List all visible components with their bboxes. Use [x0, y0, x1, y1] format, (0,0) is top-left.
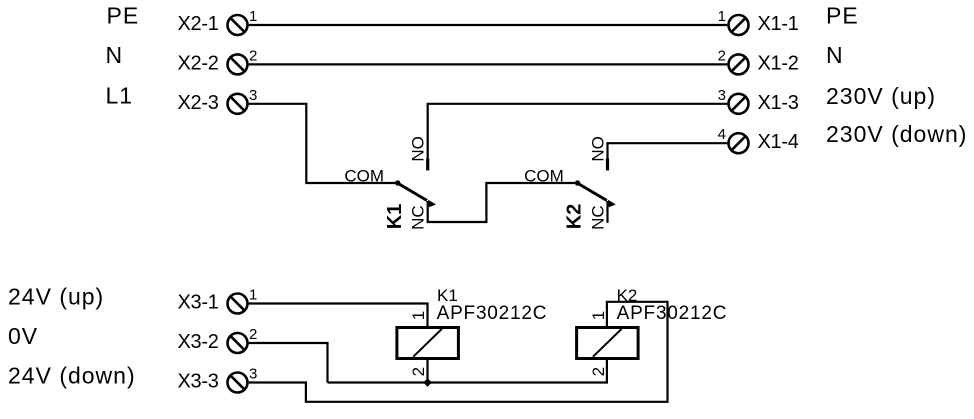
svg-text:X1-2: X1-2: [758, 52, 799, 74]
svg-text:X3-1: X3-1: [178, 292, 219, 314]
wire X2-1 to X1-1: [249, 24, 728, 26]
svg-text:COM: COM: [344, 167, 384, 186]
wire K1 NO to X1-3: [428, 104, 728, 160]
svg-text:1: 1: [409, 311, 428, 320]
svg-text:N: N: [826, 42, 844, 68]
svg-text:4: 4: [718, 126, 726, 143]
switch K1: [395, 159, 436, 208]
svg-text:2: 2: [249, 326, 257, 343]
wire X3-2 to junction line: [249, 343, 328, 383]
svg-text:24V (down): 24V (down): [8, 363, 136, 389]
svg-text:NO: NO: [589, 136, 608, 162]
wire K2 NC stub: [606, 201, 608, 223]
terminal X1-3: [729, 94, 749, 114]
svg-text:1: 1: [249, 287, 257, 304]
svg-text:2: 2: [249, 47, 257, 64]
wire X3-3 to K2 coil pin1: [249, 302, 668, 402]
terminal X3-1: [228, 294, 248, 314]
svg-text:1: 1: [589, 311, 608, 320]
svg-text:K2: K2: [564, 204, 586, 230]
wire junction line to K2 coil pin2: [328, 359, 607, 383]
svg-text:X1-4: X1-4: [758, 131, 799, 153]
relay coil K2: [577, 328, 639, 359]
svg-text:3: 3: [249, 366, 257, 383]
svg-text:APF30212C: APF30212C: [617, 303, 728, 324]
svg-text:2: 2: [718, 47, 726, 64]
svg-text:X1-3: X1-3: [758, 92, 799, 114]
terminal X2-1: [228, 15, 248, 35]
wire X3-1 to K1 coil pin1: [249, 304, 428, 328]
svg-text:PE: PE: [107, 3, 140, 29]
junction node (K1 pin2 / supply rail): [423, 378, 432, 387]
terminal X3-2: [228, 333, 248, 353]
terminal X1-1: [729, 15, 749, 35]
svg-text:1: 1: [718, 8, 726, 25]
svg-text:230V (down): 230V (down): [826, 121, 967, 147]
svg-text:X2-2: X2-2: [178, 52, 219, 74]
terminal X2-2: [228, 54, 248, 74]
svg-text:230V (up): 230V (up): [826, 83, 936, 109]
svg-text:L1: L1: [106, 83, 134, 109]
svg-text:X1-1: X1-1: [758, 13, 799, 35]
svg-text:24V (up): 24V (up): [8, 284, 104, 310]
svg-text:X2-1: X2-1: [178, 13, 219, 35]
svg-text:PE: PE: [826, 3, 859, 29]
svg-text:NO: NO: [409, 136, 428, 162]
svg-text:0V: 0V: [8, 323, 38, 349]
svg-text:X3-3: X3-3: [178, 371, 219, 393]
wire K1 coil pin2 to junction: [426, 359, 428, 383]
wire X2-3 to K1 COM: [249, 104, 395, 183]
svg-text:3: 3: [718, 87, 726, 104]
svg-text:3: 3: [249, 87, 257, 104]
wire K1 NC to K2 COM: [428, 183, 575, 222]
svg-text:K1: K1: [384, 204, 406, 230]
svg-text:X3-2: X3-2: [178, 331, 219, 353]
wire X2-2 to X1-2: [249, 63, 728, 65]
svg-text:NC: NC: [409, 205, 428, 230]
svg-text:1: 1: [249, 8, 257, 25]
svg-text:NC: NC: [589, 205, 608, 230]
terminal X1-2: [729, 54, 749, 74]
relay coil K1: [397, 328, 459, 359]
svg-text:APF30212C: APF30212C: [437, 303, 548, 324]
terminal X2-3: [228, 94, 248, 114]
terminal X1-4: [729, 133, 749, 153]
switch K2: [575, 159, 616, 208]
svg-text:2: 2: [589, 367, 608, 376]
wire K2 NO to X1-4: [608, 143, 728, 159]
svg-text:COM: COM: [524, 167, 564, 186]
svg-text:N: N: [106, 42, 124, 68]
svg-text:X2-3: X2-3: [178, 92, 219, 114]
terminal X3-3: [228, 373, 248, 393]
svg-text:2: 2: [409, 367, 428, 376]
